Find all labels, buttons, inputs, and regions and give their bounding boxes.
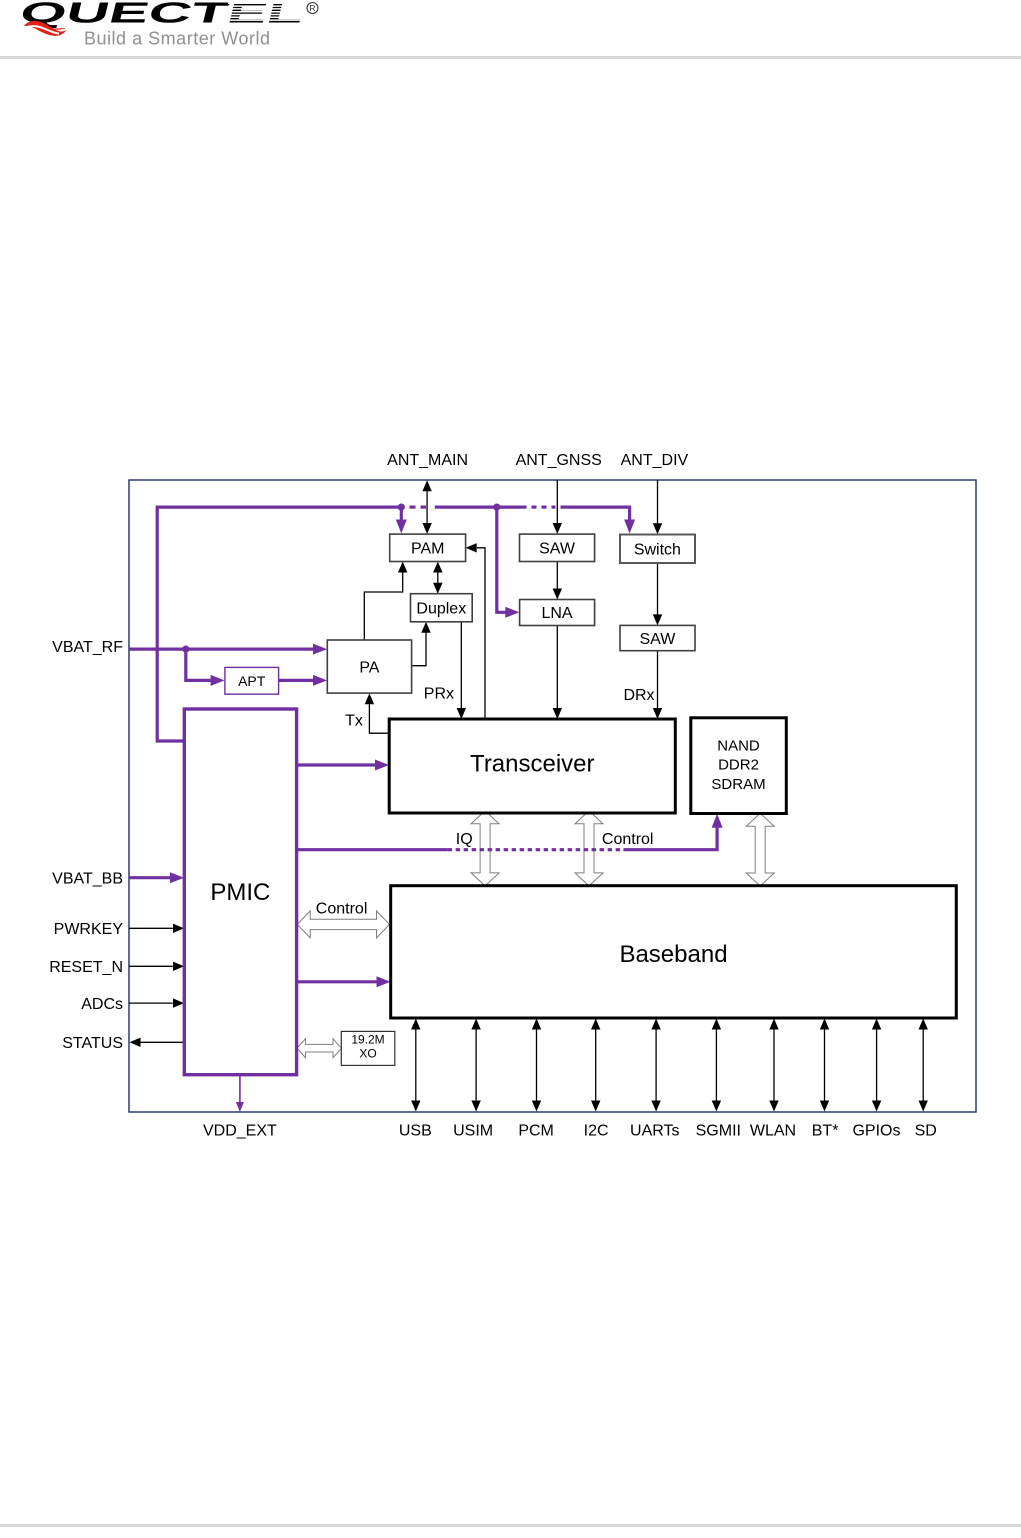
- bus open double arrow NAND-Baseband: [746, 813, 774, 886]
- wire PAM-Duplex double arrow: [437, 571, 439, 585]
- svg-text:ADCs: ADCs: [81, 996, 123, 1013]
- wire ANT_GNSS to SAW: [556, 480, 558, 525]
- svg-text:SAW: SAW: [539, 541, 576, 558]
- wire SD interface double arrow: [922, 1028, 924, 1103]
- bus Control open double arrow PMIC-Baseband: [297, 911, 389, 938]
- svg-text:VBAT_RF: VBAT_RF: [52, 639, 123, 656]
- junction node at LNA feed: [493, 504, 500, 511]
- svg-text:NAND: NAND: [717, 738, 760, 755]
- svg-text:UARTs: UARTs: [630, 1123, 680, 1140]
- svg-text:ANT_GNSS: ANT_GNSS: [516, 452, 602, 469]
- wire ANT_MAIN to PAM double arrow: [426, 490, 428, 525]
- block NAND DDR2 SDRAM: [691, 718, 787, 814]
- svg-text:PMIC: PMIC: [210, 879, 270, 906]
- wire ADCs input: [129, 1002, 173, 1004]
- svg-text:SDRAM: SDRAM: [711, 776, 765, 793]
- wire APT to PA: [279, 679, 315, 682]
- wire VBAT_RF branch to APT: [186, 649, 213, 680]
- wire PA to PAM: [364, 571, 402, 640]
- svg-text:Tx: Tx: [345, 713, 363, 730]
- svg-text:SAW: SAW: [639, 631, 676, 648]
- block SAW (GNSS): [520, 534, 595, 561]
- block SAW (DIV): [620, 625, 695, 650]
- svg-text:Transceiver: Transceiver: [470, 751, 594, 778]
- svg-text:VBAT_BB: VBAT_BB: [52, 870, 123, 887]
- wire Duplex to Transceiver PRx: [460, 622, 462, 710]
- wire WLAN interface double arrow: [773, 1028, 775, 1103]
- svg-text:VDD_EXT: VDD_EXT: [203, 1123, 277, 1140]
- wire PWRKEY input: [129, 927, 173, 929]
- svg-text:SD: SD: [915, 1123, 937, 1140]
- svg-text:Control: Control: [602, 831, 654, 848]
- svg-text:SGMII: SGMII: [696, 1123, 741, 1140]
- header rule: [0, 56, 1021, 59]
- wire top rail dashed crossing ANT_MAIN: [410, 506, 416, 509]
- wire VBAT_RF input to PA: [129, 647, 315, 650]
- wire USB interface double arrow: [415, 1028, 417, 1103]
- svg-text:Control: Control: [316, 901, 368, 918]
- svg-text:PRx: PRx: [424, 685, 454, 702]
- block LNA: [520, 600, 595, 626]
- svg-text:PA: PA: [359, 659, 379, 676]
- svg-text:Duplex: Duplex: [416, 601, 466, 618]
- wire PMIC power to Transceiver: [297, 763, 378, 766]
- logo wordmark QUECTEL: [16, 0, 307, 29]
- bus IQ open double arrow Transceiver-Baseband: [471, 811, 499, 886]
- svg-text:USIM: USIM: [453, 1123, 493, 1140]
- block PMIC: [184, 709, 296, 1075]
- block Switch: [620, 535, 695, 564]
- wire Switch to SAW2: [657, 563, 659, 616]
- svg-text:DDR2: DDR2: [718, 757, 759, 774]
- wire BT* interface double arrow: [824, 1028, 826, 1103]
- block PA: [327, 640, 411, 693]
- svg-text:WLAN: WLAN: [750, 1123, 796, 1140]
- logo red swoosh: [24, 21, 67, 36]
- svg-text:Baseband: Baseband: [619, 941, 727, 968]
- wire PMIC power to NAND riser: [623, 826, 717, 850]
- wire PA to Duplex: [412, 632, 426, 666]
- Quectel logo: [0, 0, 340, 56]
- svg-text:LNA: LNA: [541, 605, 572, 622]
- wire top rail solid mid: [441, 506, 522, 509]
- wire GPIOs interface double arrow: [876, 1028, 878, 1103]
- wire USIM interface double arrow: [475, 1028, 477, 1103]
- block 19.2M XO: [341, 1031, 395, 1065]
- wire Transceiver to PAM input: [477, 548, 485, 719]
- svg-text:Switch: Switch: [634, 542, 681, 559]
- wire PMIC power to NAND solid part: [297, 848, 448, 851]
- logo registered mark: [307, 3, 318, 14]
- wire Transceiver Tx to PA: [369, 703, 389, 733]
- diagram frame: [129, 480, 976, 1112]
- svg-text:DRx: DRx: [623, 687, 654, 704]
- wire VBAT_RF rail vertical from PMIC: [157, 507, 403, 741]
- wire SGMII interface double arrow: [715, 1028, 717, 1103]
- svg-text:I2C: I2C: [584, 1123, 609, 1140]
- svg-text:BT*: BT*: [812, 1123, 839, 1140]
- block Baseband: [391, 886, 957, 1018]
- svg-text:ANT_MAIN: ANT_MAIN: [387, 452, 468, 469]
- wire VDD_EXT output from PMIC: [239, 1075, 241, 1103]
- wire PMIC power to Baseband: [297, 980, 379, 983]
- svg-text:PAM: PAM: [411, 541, 444, 558]
- logo stripe cuts over EL: [228, 3, 308, 20]
- bus Control open double arrow Transceiver-Baseband: [575, 811, 603, 886]
- wire VBAT_BB input to PMIC: [129, 876, 173, 879]
- svg-text:PWRKEY: PWRKEY: [54, 921, 124, 938]
- wire SAW to LNA: [556, 562, 558, 591]
- wire PCM interface double arrow: [536, 1028, 538, 1103]
- block Transceiver U1: [389, 719, 675, 813]
- wire RESET_N input: [129, 965, 173, 967]
- wire top rail dashed crossing ANT_GNSS: [522, 506, 527, 509]
- svg-text:19.2M: 19.2M: [351, 1033, 384, 1047]
- wire PMIC power to NAND dashed part: [448, 848, 624, 851]
- wire power feed down to PAM: [400, 507, 403, 521]
- svg-text:USB: USB: [399, 1123, 432, 1140]
- wire UARTs interface double arrow: [655, 1028, 657, 1103]
- svg-text:PCM: PCM: [518, 1123, 554, 1140]
- block PAM: [390, 534, 466, 561]
- svg-text:STATUS: STATUS: [62, 1035, 123, 1052]
- block Duplex: [411, 594, 473, 622]
- wire power feed down-right to LNA: [497, 507, 508, 612]
- block APT: [225, 667, 279, 694]
- wire SAW2 to Transceiver DRx: [657, 651, 659, 710]
- svg-text:XO: XO: [359, 1047, 376, 1061]
- svg-text:RESET_N: RESET_N: [49, 959, 123, 976]
- junction node at PAM feed: [398, 504, 405, 511]
- svg-text:ANT_DIV: ANT_DIV: [621, 452, 689, 469]
- svg-text:APT: APT: [238, 673, 266, 689]
- footer rule: [0, 1524, 1021, 1527]
- junction node VBAT_RF to APT: [182, 646, 189, 653]
- wire ANT_DIV to Switch: [657, 480, 659, 525]
- bus open double arrow PMIC-XO: [297, 1039, 342, 1058]
- wire top rail to Switch: [561, 507, 630, 521]
- svg-text:GPIOs: GPIOs: [852, 1123, 900, 1140]
- wire I2C interface double arrow: [595, 1028, 597, 1103]
- wire LNA to Transceiver: [556, 626, 558, 710]
- wire STATUS output: [140, 1041, 184, 1043]
- svg-text:IQ: IQ: [456, 831, 473, 848]
